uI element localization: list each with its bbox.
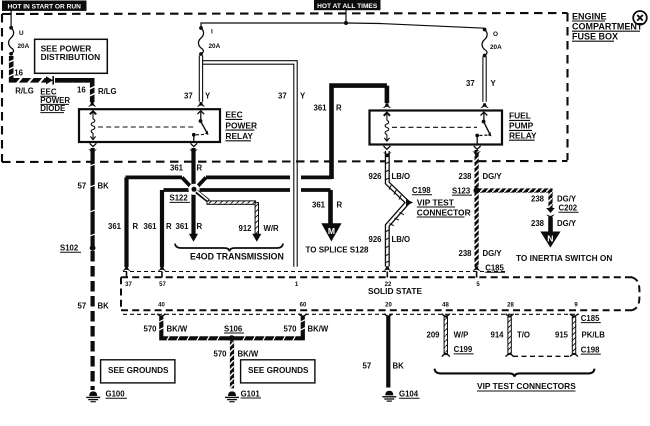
pin chevrons fuel pump relay: [384, 112, 391, 115]
svg-text:ENGINE: ENGINE: [572, 11, 607, 21]
svg-text:570: 570: [214, 349, 228, 358]
dashed link inside relay: [392, 126, 477, 128]
wire R/LG striped horizontal with EEC power diode: [9, 77, 89, 83]
svg-text:SOLID STATE: SOLID STATE: [368, 286, 423, 296]
arrow N to inertia switch: [540, 232, 560, 248]
svg-text:S106: S106: [224, 324, 243, 333]
svg-text:37: 37: [466, 79, 475, 88]
label HOT IN START OR RUN: [2, 1, 87, 11]
svg-text:C198: C198: [412, 186, 431, 195]
ground G104: [382, 391, 396, 401]
wire 361 R down to E4OD transmission: [191, 190, 195, 234]
label EEC POWER RELAY: [225, 110, 257, 141]
svg-text:R: R: [197, 164, 203, 173]
svg-text:DG/Y: DG/Y: [557, 219, 577, 228]
wire 570 BK/W bus striped from pins 40 and 60 to S106: [159, 317, 305, 341]
svg-text:DISTRIBUTION: DISTRIBUTION: [41, 52, 101, 62]
coil of EEC power relay: [90, 111, 95, 140]
svg-text:R: R: [337, 201, 343, 210]
connector arrow C198: [406, 199, 413, 205]
label VIP TEST CONNECTOR: [417, 197, 471, 217]
svg-text:TO SPLICE S128: TO SPLICE S128: [306, 246, 370, 255]
wire 238 DG/Y striped from S123 to C202: [479, 188, 553, 209]
arrow M to splice S128: [321, 223, 341, 241]
bell connectors at EEC relay top pins: [197, 102, 206, 107]
svg-text:57: 57: [159, 282, 166, 288]
node S122 junction: [188, 184, 199, 195]
svg-text:I: I: [211, 29, 213, 36]
label C198: [412, 186, 432, 195]
svg-text:40: 40: [158, 302, 165, 308]
wire 209 W/P stub C199: [444, 317, 448, 353]
svg-text:POWER: POWER: [225, 120, 257, 130]
svg-text:361: 361: [314, 103, 328, 112]
svg-text:361: 361: [312, 201, 326, 210]
contact of fuel pump relay: [483, 112, 485, 120]
svg-text:FUEL: FUEL: [509, 111, 531, 121]
svg-text:238: 238: [459, 249, 473, 258]
svg-text:20A: 20A: [209, 43, 221, 50]
svg-text:BK/W: BK/W: [238, 349, 259, 358]
svg-text:16: 16: [77, 86, 86, 95]
node S123: [474, 187, 480, 193]
svg-text:PK/LB: PK/LB: [582, 331, 606, 340]
svg-text:37: 37: [125, 282, 132, 288]
svg-text:R: R: [166, 222, 172, 231]
ground G101: [225, 391, 239, 401]
svg-text:BK: BK: [98, 182, 110, 191]
label ENGINE COMPARTMENT FUSE BOX: [572, 11, 643, 41]
brace E4OD: [175, 244, 283, 252]
svg-text:Y: Y: [205, 92, 211, 101]
svg-text:BK/W: BK/W: [308, 324, 329, 333]
ground G100: [86, 391, 100, 401]
svg-text:361: 361: [108, 222, 122, 231]
wire thin feed line to fuses I and O: [201, 23, 485, 28]
wire 37 Y double line from fuse I to EEC power relay: [199, 56, 202, 102]
op relay EEC power relay box: [79, 109, 220, 146]
wire 57 BK from EEC relay to S102: [90, 148, 97, 246]
wire 16 striped below fuse U: [8, 56, 14, 82]
engine compartment fuse box (dashed): [2, 13, 568, 162]
op relay fuel pump relay box: [370, 111, 503, 150]
svg-text:TO INERTIA SWITCH ON: TO INERTIA SWITCH ON: [516, 253, 612, 263]
svg-text:BK: BK: [393, 361, 405, 370]
svg-text:R: R: [133, 222, 139, 231]
wire bus 361 upper: [126, 177, 332, 188]
svg-text:C199: C199: [454, 345, 473, 354]
label C185: [581, 314, 601, 323]
svg-text:C198: C198: [581, 345, 600, 354]
label VIP TEST CONNECTORS: [477, 381, 576, 391]
svg-text:R: R: [197, 222, 203, 231]
diode EEC power diode: [46, 76, 53, 85]
svg-text:209: 209: [427, 331, 441, 340]
wire 361 R vertical to solid state pin 37: [124, 177, 128, 267]
svg-text:48: 48: [442, 303, 449, 309]
svg-text:BK: BK: [98, 302, 110, 311]
svg-text:20A: 20A: [18, 43, 30, 50]
wire 57 BK from pin 20 to G104: [386, 317, 390, 388]
svg-text:926: 926: [369, 172, 383, 181]
fuse U 20A: [9, 26, 14, 56]
svg-text:G104: G104: [399, 390, 419, 399]
wire 361 R from EEC relay down to S122: [191, 148, 195, 188]
wire dashed link between T/O and PK/LB stubs: [513, 355, 570, 357]
svg-text:VIP TEST CONNECTORS: VIP TEST CONNECTORS: [477, 381, 576, 391]
wire 914 T/O stub: [507, 317, 511, 353]
svg-text:37: 37: [184, 92, 193, 101]
svg-text:C185: C185: [581, 314, 600, 323]
svg-text:C202: C202: [559, 204, 578, 213]
fuse O 20A: [482, 28, 487, 58]
node S106: [229, 335, 235, 341]
box SEE GROUNDS left: [101, 360, 175, 383]
svg-text:22: 22: [385, 282, 392, 288]
label C202: [559, 204, 579, 213]
fuse I 20A: [198, 26, 203, 56]
svg-text:G101: G101: [241, 389, 261, 398]
svg-text:M: M: [328, 226, 335, 236]
bell connectors at fuel pump relay top pins: [383, 103, 392, 108]
svg-text:O: O: [493, 31, 498, 38]
svg-text:VIP TEST: VIP TEST: [417, 197, 455, 207]
svg-text:57: 57: [78, 302, 87, 311]
svg-text:FUSE BOX: FUSE BOX: [572, 32, 618, 42]
svg-text:238: 238: [459, 172, 473, 181]
svg-text:361: 361: [144, 222, 158, 231]
svg-text:20A: 20A: [490, 44, 502, 51]
svg-text:Y: Y: [300, 92, 306, 101]
svg-text:912: 912: [239, 224, 253, 233]
svg-text:EEC: EEC: [225, 110, 242, 120]
svg-text:361: 361: [170, 164, 184, 173]
solid state module dashed box: [121, 277, 640, 310]
svg-text:COMPARTMENT: COMPARTMENT: [572, 22, 643, 32]
label HOT AT ALL TIMES: [314, 0, 381, 10]
node junction dot: [344, 21, 348, 25]
svg-text:W/R: W/R: [264, 224, 280, 233]
connector C202 arrows: [546, 208, 555, 213]
svg-text:N: N: [547, 234, 553, 244]
wire 238 DG/Y to inertia switch: [548, 218, 553, 232]
label EEC POWER DIODE: [40, 88, 70, 113]
svg-text:16: 16: [14, 69, 23, 78]
svg-text:60: 60: [300, 302, 307, 308]
wire 361 R riser to fuel pump relay: [329, 86, 387, 179]
svg-text:RELAY: RELAY: [509, 130, 537, 140]
wire 57 BK dashed below S102 to G100: [90, 251, 94, 390]
svg-text:20: 20: [385, 302, 392, 308]
svg-text:DG/Y: DG/Y: [483, 249, 503, 258]
wire 37 Y double line branch to solid state: [203, 61, 298, 267]
svg-text:LB/O: LB/O: [392, 172, 411, 181]
svg-text:28: 28: [507, 302, 514, 308]
wire bus 361 lower: [164, 188, 331, 192]
connector line thin dashed below solid state: [123, 313, 579, 315]
svg-text:R/LG: R/LG: [15, 86, 34, 95]
box SEE POWER DISTRIBUTION: [35, 39, 108, 73]
svg-text:DG/Y: DG/Y: [483, 172, 503, 181]
svg-text:R/LG: R/LG: [98, 87, 117, 96]
contact of EEC power relay: [200, 111, 202, 120]
arrow to E4OD: [252, 234, 261, 242]
svg-text:915: 915: [555, 331, 569, 340]
symbol circled X: [633, 11, 647, 25]
wire 912 W/R hatched from S122 to E4OD: [197, 191, 260, 234]
svg-text:G100: G100: [106, 390, 126, 399]
svg-text:LB/O: LB/O: [392, 235, 411, 244]
svg-text:914: 914: [491, 331, 505, 340]
svg-text:570: 570: [144, 324, 158, 333]
wire 570 BK/W striped from S106 to G101: [230, 341, 234, 388]
svg-text:S123: S123: [452, 186, 471, 195]
svg-text:RELAY: RELAY: [225, 131, 253, 141]
dashed link inside relay: [98, 126, 194, 128]
coil of fuel pump relay: [384, 113, 389, 142]
svg-text:BK/W: BK/W: [167, 324, 188, 333]
svg-text:37: 37: [278, 92, 287, 101]
brace VIP TEST CONNECTORS: [435, 369, 595, 377]
svg-text:DG/Y: DG/Y: [557, 194, 577, 203]
svg-text:361: 361: [176, 222, 190, 231]
label FUEL PUMP RELAY: [509, 111, 537, 141]
svg-text:S102: S102: [60, 244, 79, 253]
wire 16 R/LG striped down to EEC relay: [55, 78, 95, 102]
svg-text:57: 57: [78, 182, 87, 191]
svg-text:238: 238: [531, 194, 545, 203]
connector line C185 thin dashed above solid state: [123, 271, 506, 273]
wire 915 PK/LB stub C185 C198: [572, 317, 576, 353]
wire 238 DG/Y striped from fuel pump relay to C185: [475, 150, 479, 267]
svg-text:W/P: W/P: [454, 331, 469, 340]
svg-text:DIODE: DIODE: [40, 104, 65, 113]
svg-text:S122: S122: [170, 194, 189, 203]
box SEE GROUNDS right: [241, 360, 315, 383]
svg-text:T/O: T/O: [517, 331, 530, 340]
wire 361 R to splice S128: [328, 190, 333, 224]
svg-text:57: 57: [363, 361, 372, 370]
label C199: [454, 345, 474, 354]
svg-text:HOT IN START OR RUN: HOT IN START OR RUN: [7, 3, 81, 10]
svg-text:R: R: [336, 103, 342, 112]
label C185: [485, 264, 505, 273]
wire feed from HOT AT ALL TIMES: [345, 10, 347, 23]
wire 37 Y double line from fuse O to fuel pump relay: [483, 57, 486, 102]
svg-text:926: 926: [369, 235, 383, 244]
arrow to E4OD: [189, 234, 198, 242]
svg-text:CONNECTOR: CONNECTOR: [417, 207, 471, 217]
svg-text:238: 238: [531, 219, 545, 228]
svg-text:U: U: [19, 30, 24, 37]
pin chevrons EEC relay: [90, 111, 97, 114]
svg-text:SEE GROUNDS: SEE GROUNDS: [108, 366, 169, 375]
node S102: [90, 245, 96, 251]
wire feed from HOT IN START OR RUN to fuse U: [10, 11, 12, 27]
svg-text:Y: Y: [491, 79, 497, 88]
svg-text:E4OD TRANSMISSION: E4OD TRANSMISSION: [190, 251, 284, 261]
label C198: [581, 345, 601, 354]
svg-text:570: 570: [284, 324, 298, 333]
wire 926 LB/O hatched from fuel pump relay through C198: [385, 151, 408, 267]
svg-text:SEE GROUNDS: SEE GROUNDS: [248, 366, 309, 375]
svg-text:PUMP: PUMP: [509, 121, 534, 131]
wire 361 R vertical to solid state pin 57: [160, 190, 164, 267]
svg-text:HOT AT ALL TIMES: HOT AT ALL TIMES: [317, 3, 378, 10]
